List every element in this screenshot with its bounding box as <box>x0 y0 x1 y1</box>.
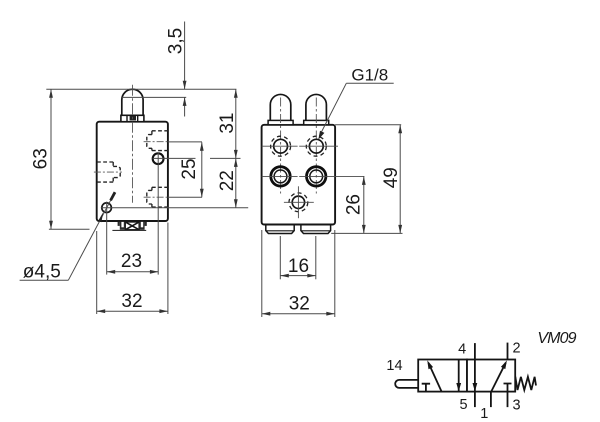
mid-left port horizontal center line <box>262 175 298 177</box>
top-right port thread dashed circle <box>306 136 326 156</box>
left box: flow path 2 to 3 <box>458 360 460 392</box>
31 arrows <box>234 89 238 98</box>
63 bottom extension line <box>49 228 90 230</box>
dimension 26 line <box>363 176 365 233</box>
svg-text:32: 32 <box>289 294 310 315</box>
left box: flow path 1 to 4 <box>429 363 442 392</box>
right plunger collar (front) <box>304 120 329 124</box>
svg-text:ø4,5: ø4,5 <box>23 262 61 283</box>
collar center pin <box>130 116 136 120</box>
top-right port bore circle <box>309 139 323 153</box>
lower port horizontal center line <box>284 201 314 203</box>
32 arrows (front) <box>262 312 271 316</box>
dimension 32 line (front) <box>262 313 335 315</box>
mounting hole circle o4,5 <box>102 203 112 213</box>
right foot (front) <box>301 225 331 234</box>
top-left port horizontal center line <box>262 145 298 147</box>
49/26 bottom extension line (feet bottom) <box>331 232 402 234</box>
o4,5 leader tail thick mark <box>111 192 115 200</box>
bottom fitting left shoulder <box>120 222 125 230</box>
bottom fitting right shoulder <box>139 222 144 230</box>
svg-text:G1/8: G1/8 <box>351 66 388 85</box>
svg-text:2: 2 <box>512 340 520 356</box>
dimension 63 line <box>50 89 52 229</box>
right plunger dome (front) <box>306 94 327 120</box>
svg-text:26: 26 <box>344 194 365 215</box>
plunger dome (side view) <box>122 89 143 115</box>
3,5 arrows (outside pair) <box>183 81 187 90</box>
left foot inner line <box>266 230 294 232</box>
lower center port thread dashed circle <box>289 193 308 212</box>
dimension 25 line <box>201 142 203 197</box>
pilot push rod (port 14) <box>395 380 418 388</box>
dimension 23 line <box>107 271 159 273</box>
mid-right port center line merged with 26 extension <box>299 175 364 177</box>
svg-text:1: 1 <box>480 406 488 422</box>
mid-right port inner circle <box>310 170 323 183</box>
port 1 stub <box>490 392 492 408</box>
symbol right box <box>467 360 515 392</box>
o4,5 leader shelf <box>20 279 69 281</box>
bottom fitting X-block <box>125 222 139 230</box>
lower port vertical center line <box>297 186 299 218</box>
32 extension lines <box>96 231 98 314</box>
extension line from top socket to 25 dimension <box>168 141 202 143</box>
left foot (front) <box>266 225 294 234</box>
left box: blocked port T (5) <box>422 384 430 392</box>
o4,5 leader arrowhead at hole <box>98 212 103 222</box>
dimension 32 line (left view) <box>97 310 168 312</box>
mid-left port outer bold circle <box>271 167 290 186</box>
collar inner steps <box>126 115 128 121</box>
49 arrows <box>398 125 402 134</box>
svg-text:63: 63 <box>31 148 52 169</box>
plunger collar <box>121 115 144 121</box>
bottom fitting right tab <box>145 222 147 226</box>
center line from right hole to 31/22 dimension <box>153 157 196 159</box>
vertical center line left column <box>280 98 282 194</box>
left plunger dome (front) <box>270 94 291 120</box>
left box: 1-4 arrowhead <box>427 360 433 369</box>
svg-text:14: 14 <box>386 358 402 374</box>
side hole circle right <box>153 153 164 164</box>
vertical center line right column <box>315 98 317 194</box>
63 arrows <box>49 89 53 98</box>
socket mid-left center line <box>94 171 122 173</box>
valve body (front view) <box>262 125 336 225</box>
mid-right port outer bold circle <box>307 167 326 186</box>
valve body (side view) <box>97 122 168 221</box>
dimension 16 line <box>280 275 316 277</box>
right foot inner line <box>301 230 330 232</box>
bottom fitting base line <box>112 229 146 231</box>
16 extension lines <box>279 236 281 279</box>
horizontal line through o4,5 hole to 22 dimension <box>101 207 248 209</box>
32 extension lines (front) <box>261 230 263 317</box>
port 2 stub <box>507 343 509 360</box>
extension line from lower socket to 25 dimension <box>168 196 202 198</box>
symbol left box <box>418 360 467 392</box>
right box: 1-2 arrowhead <box>501 360 507 369</box>
o4,5 leader line <box>68 193 114 280</box>
dimension 49 line <box>399 125 401 234</box>
left box: 2-3 arrowhead <box>456 383 461 392</box>
32 arrows <box>97 309 106 313</box>
top-left port bore circle <box>274 139 288 153</box>
return spring <box>515 377 536 390</box>
extension line from right hole down to 23 dimension <box>157 153 159 275</box>
G1/8 leader line <box>319 83 346 136</box>
socket lower-right center line <box>144 196 169 198</box>
top-left port thread dashed circle <box>271 136 291 156</box>
hidden port socket mid-left (side view) <box>97 162 120 182</box>
G1/8 leader arrowhead <box>318 131 324 140</box>
16 arrows <box>280 274 289 278</box>
hidden port socket lower-right (side view) <box>147 187 168 207</box>
26 arrows <box>362 176 366 185</box>
plunger pressed-position line (3,5 travel) <box>122 96 186 98</box>
G1/8 leader shelf <box>346 82 393 84</box>
svg-text:32: 32 <box>121 291 142 312</box>
22 arrows <box>234 158 238 167</box>
dimension 3,5 line segments <box>184 22 186 90</box>
right box: 4-5 arrowhead <box>473 383 478 392</box>
extension line from o4,5 hole down to 23 dimension <box>106 202 108 275</box>
vertical center line of plunger axis <box>131 85 133 203</box>
svg-text:25: 25 <box>179 158 200 179</box>
25 arrows <box>200 142 204 151</box>
svg-text:4: 4 <box>458 342 466 358</box>
svg-text:3: 3 <box>513 397 521 413</box>
right box: flow path 1 to 2 <box>491 363 506 392</box>
top extension line (plunger top, shared by 63 / 3,5 / 31) <box>46 88 236 90</box>
49 top extension line <box>335 124 401 126</box>
svg-text:22: 22 <box>217 170 238 191</box>
mid-left port inner circle <box>274 170 287 183</box>
svg-text:31: 31 <box>217 113 238 134</box>
svg-text:5: 5 <box>460 397 468 413</box>
svg-text:VM09: VM09 <box>537 330 576 347</box>
left plunger collar (front) <box>268 120 293 124</box>
right box: port 4-5 line (through stubs) <box>474 343 476 407</box>
top-right port horizontal center line <box>299 145 338 147</box>
right box: blocked port T (3) with stub <box>504 384 512 408</box>
svg-text:49: 49 <box>381 167 402 188</box>
hidden port socket top-right (G1/8 side view) <box>147 131 168 151</box>
svg-text:23: 23 <box>121 251 142 272</box>
socket top-right center line <box>144 141 169 143</box>
bottom fitting left tab <box>118 222 120 226</box>
svg-text:3,5: 3,5 <box>166 28 187 54</box>
lower center port bore circle <box>292 196 304 208</box>
svg-text:16: 16 <box>288 256 309 277</box>
23 arrows <box>107 270 116 274</box>
dimension 31 / 22 line <box>235 89 237 208</box>
